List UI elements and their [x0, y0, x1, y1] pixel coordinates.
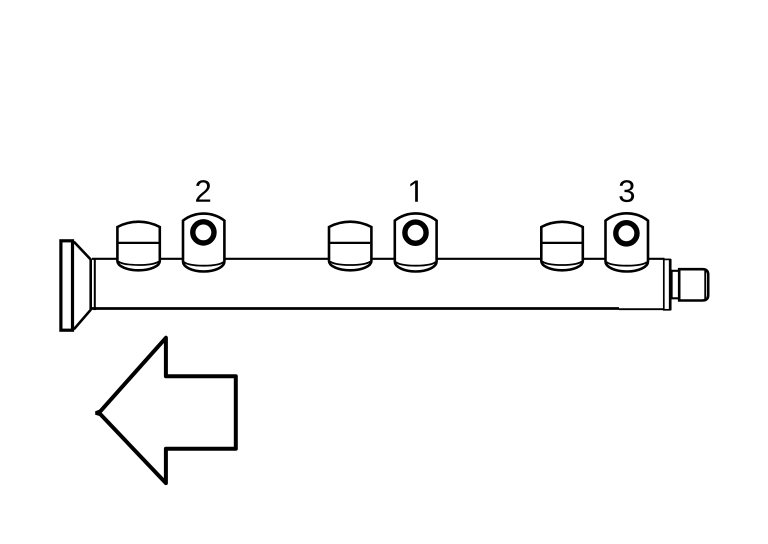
- end fitting face line: [704, 270, 706, 300]
- injector boss 2: [183, 214, 224, 272]
- label 1: [410, 180, 418, 201]
- boss A (plain, leftmost): [117, 222, 159, 271]
- boss 2 port ring: [193, 222, 214, 243]
- end fitting body: [679, 269, 708, 300]
- boss B (plain, middle-left): [329, 222, 371, 271]
- right end cap outer edge (thick): [669, 259, 672, 310]
- boss C mid line: [542, 242, 581, 244]
- boss 3 inner bottom rim arc: [607, 262, 647, 266]
- boss B mid line: [330, 242, 370, 244]
- cone-to-tube junction ring line: [94, 258, 96, 310]
- boss B inner bottom rim arc: [330, 261, 370, 265]
- label 3: [619, 180, 634, 202]
- boss 1 port ring: [405, 222, 426, 243]
- fitting neck: [672, 271, 680, 299]
- fuel rail tube top line: [92, 258, 665, 260]
- boss A inner bottom rim arc: [119, 261, 159, 265]
- boss 3 port ring: [616, 223, 637, 244]
- left end flange disc: [61, 241, 73, 330]
- boss C inner bottom rim arc: [543, 261, 582, 265]
- fuel rail tube bottom line (left thick segment): [92, 307, 619, 310]
- inlet cone (left funnel): [74, 242, 91, 330]
- boss C (plain, middle-right): [541, 222, 583, 271]
- fuel rail tube bottom line (right thin segment): [619, 308, 665, 310]
- boss A mid line: [119, 242, 159, 244]
- injector boss 1: [395, 213, 437, 271]
- direction arrow (front of engine): [99, 338, 236, 483]
- injector boss 3: [606, 213, 649, 271]
- boss 2 inner bottom rim arc: [184, 262, 223, 266]
- arrow tip facet: [95, 410, 99, 416]
- right end cap: [664, 259, 670, 309]
- boss 1 inner bottom rim arc: [396, 262, 435, 266]
- label 2: [196, 180, 210, 202]
